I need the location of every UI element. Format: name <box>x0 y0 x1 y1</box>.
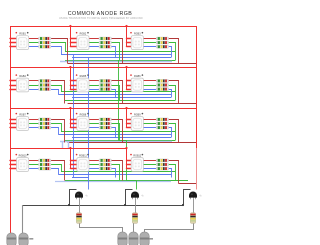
svg-text:RGB12: RGB12 <box>133 154 142 157</box>
svg-text:∿: ∿ <box>199 194 202 198</box>
svg-text:RGB9: RGB9 <box>134 113 141 116</box>
svg-text:RGB11: RGB11 <box>79 154 87 157</box>
svg-text:∿: ∿ <box>141 194 144 198</box>
svg-text:RGB10: RGB10 <box>19 154 28 157</box>
svg-text:RGB7: RGB7 <box>19 113 26 116</box>
svg-text:USING TRANSISTOR TO DRIVE LEDS: USING TRANSISTOR TO DRIVE LEDS TRIGGERED… <box>59 17 143 20</box>
svg-text:RGB1: RGB1 <box>19 32 26 35</box>
svg-text:RGB4: RGB4 <box>19 75 26 78</box>
svg-text:RGB6: RGB6 <box>134 75 141 78</box>
svg-text:RGB3: RGB3 <box>134 32 141 35</box>
svg-text:RGB5: RGB5 <box>80 75 87 78</box>
svg-text:∿: ∿ <box>85 194 88 198</box>
svg-text:RGB8: RGB8 <box>80 113 87 116</box>
svg-text:RGB2: RGB2 <box>80 32 87 35</box>
